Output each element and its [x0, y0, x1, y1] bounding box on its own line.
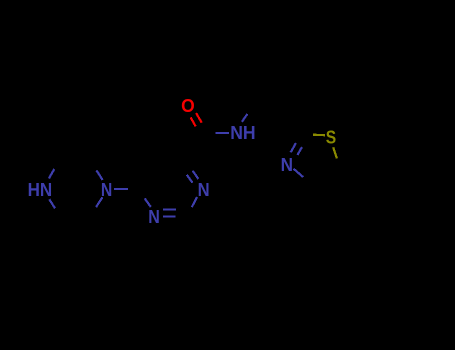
- wire C=O double bond red half line right: [196, 113, 202, 123]
- svg-text:N: N: [198, 179, 210, 200]
- wire thiazole N=C2 double bond inner half: [297, 147, 302, 155]
- wire thiazole N=C2 double bond main half: [291, 143, 296, 152]
- wire piperazine N4-C5 half-bond: [49, 199, 55, 208]
- wire piperazine N1-C2 half-bond: [97, 170, 103, 180]
- wire pyrimidine C6=N1 double bond inner half: [187, 175, 193, 183]
- wire pyrimidine N3=C2 double bond main half: [163, 215, 176, 217]
- wire pyrimidine N3-C4 half-bond: [145, 198, 151, 207]
- wire amide N to carbonyl C half-bond: [216, 132, 229, 134]
- wire piperazine N1-C6 half-bond: [96, 197, 102, 207]
- wire piperazine N1 to pyrimidine C4 half-bond: [114, 188, 128, 190]
- svg-text:N: N: [101, 179, 112, 200]
- wire thiazole S-C5 half-bond: [333, 147, 337, 158]
- wire piperazine N4-C3 half-bond: [49, 169, 54, 178]
- wire pyrimidine N3=C2 double bond inner half: [163, 208, 176, 210]
- wire C=O double bond red half line left: [191, 117, 196, 126]
- wire amide N to CH2 half-bond: [242, 114, 248, 122]
- svg-text:N: N: [148, 206, 160, 227]
- svg-text:O: O: [181, 95, 195, 116]
- wire thiazole N-C4 half-bond: [294, 169, 304, 177]
- svg-text:NH: NH: [230, 122, 255, 143]
- svg-text:HN: HN: [28, 179, 53, 200]
- svg-text:N: N: [281, 154, 293, 175]
- wire pyrimidine C6=N1 double bond main half: [193, 171, 199, 179]
- wire pyrimidine N1-C2 half-bond: [192, 197, 197, 207]
- wire thiazole S-C2 half-bond: [313, 134, 325, 137]
- svg-text:S: S: [326, 126, 336, 147]
